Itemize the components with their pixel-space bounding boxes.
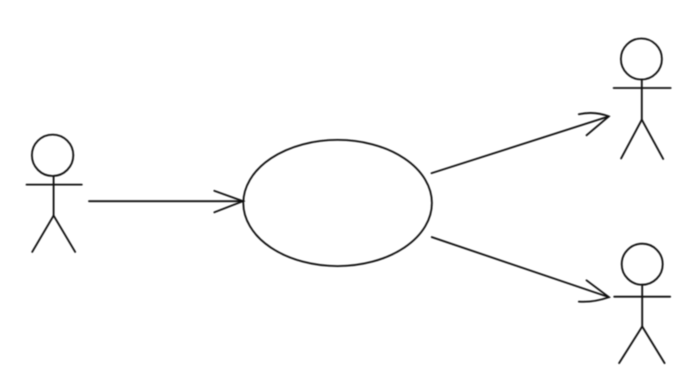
actor A3 left leg <box>619 327 642 364</box>
actor A1 arms <box>27 184 82 186</box>
actor A1 head <box>32 135 73 176</box>
arrowhead <box>579 280 609 301</box>
actor A2 left leg <box>621 120 642 159</box>
actor A3 (bottom-right) <box>614 244 670 363</box>
actor A3 arms <box>614 296 670 298</box>
actor A2 head <box>621 39 662 80</box>
wire: arrow shaft <box>432 116 609 173</box>
actor A2 arms <box>614 87 671 89</box>
wire: arrow shaft <box>89 200 243 202</box>
actor A1 right leg <box>54 216 76 252</box>
wire: arrow shaft <box>432 237 609 297</box>
actor A3 head <box>622 244 663 285</box>
actor A3 body <box>641 285 643 327</box>
actor A1 body <box>53 176 55 215</box>
arrow from actor A1 to ellipse <box>89 191 243 213</box>
arrowhead <box>579 113 609 135</box>
arrowhead <box>214 191 243 213</box>
arrow from ellipse to actor A2 (top-right) <box>432 113 609 173</box>
actor A3 right leg <box>642 327 664 364</box>
actor A2 right leg <box>642 120 663 159</box>
arrow from ellipse to actor A3 (bottom-right) <box>432 237 609 302</box>
actor A1 (left) <box>27 135 82 252</box>
actor A1 left leg <box>32 216 53 252</box>
use case ellipse <box>243 140 432 266</box>
actor A2 (top-right) <box>614 39 671 159</box>
actor A2 body <box>641 80 643 120</box>
